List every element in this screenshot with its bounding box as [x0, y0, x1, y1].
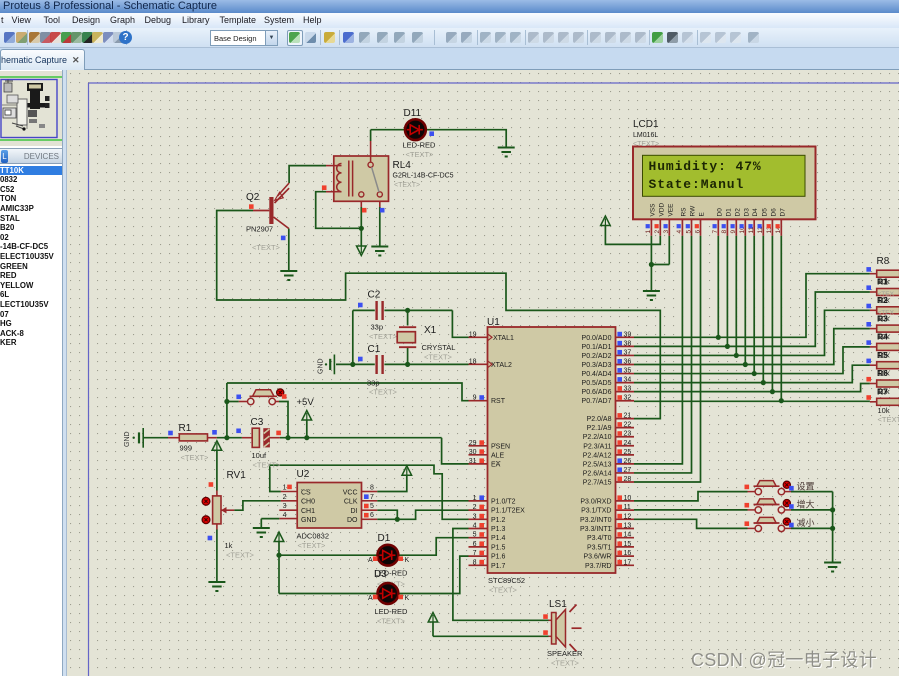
wire relay NO contact down to terminal [360, 197, 362, 246]
svg-text:RST: RST [491, 398, 506, 405]
svg-text:30: 30 [469, 449, 477, 456]
wire U1 P0.3 to R8 resistor 4 [634, 329, 870, 365]
node D1 junction [725, 344, 730, 349]
svg-text:33p: 33p [367, 379, 380, 388]
label D3 [368, 595, 410, 625]
wire U2 VCC to +5V arrow [362, 466, 412, 492]
svg-text:A: A [368, 557, 373, 564]
button 设置 actuator [783, 481, 790, 488]
svg-text:RV1: RV1 [227, 470, 247, 481]
svg-text:CH1: CH1 [301, 508, 315, 515]
svg-text:37: 37 [624, 349, 632, 356]
label R1 [179, 423, 210, 462]
svg-text:减小: 减小 [797, 517, 815, 528]
svg-text:R5: R5 [877, 350, 888, 360]
wire LCD D6 to P0.6 bus [771, 236, 773, 392]
svg-text:13: 13 [624, 523, 632, 530]
svg-text:PSEN: PSEN [491, 443, 510, 450]
wire LCD VSS to ground [651, 236, 669, 290]
label X1 [422, 325, 456, 362]
resistor pack R8 RESPACK-8 [870, 270, 899, 405]
svg-text:8: 8 [473, 559, 477, 566]
label D1 [368, 533, 410, 589]
svg-text:DO: DO [347, 517, 358, 524]
svg-text:VEE: VEE [667, 203, 674, 217]
svg-text:1k: 1k [225, 541, 233, 550]
svg-text:<TEXT>: <TEXT> [394, 182, 420, 189]
svg-text:29: 29 [469, 440, 477, 447]
svg-text:6: 6 [473, 541, 477, 548]
svg-text:8: 8 [370, 485, 374, 492]
label RL4 [393, 160, 454, 189]
svg-text:26: 26 [624, 458, 632, 465]
wire LCD VDD to +5V [601, 216, 661, 244]
svg-text:P1.1/T2EX: P1.1/T2EX [491, 508, 525, 515]
wire button rail to ground [832, 492, 834, 562]
left panel [0, 70, 62, 676]
svg-text:4: 4 [676, 230, 683, 234]
svg-text:P1.4: P1.4 [491, 535, 506, 542]
svg-text:7: 7 [473, 550, 477, 557]
wire GND terminal to C1 to XTAL2 [336, 363, 469, 365]
sheet border [89, 83, 899, 676]
svg-text:4: 4 [473, 523, 477, 530]
svg-text:LED-RED: LED-RED [403, 141, 437, 150]
svg-text:35: 35 [624, 368, 632, 375]
wire LCD D2 to P0.2 bus [735, 236, 737, 356]
terminal arrow to RV1 [212, 441, 222, 491]
reset button [248, 390, 278, 405]
wire LCD RS to U1 P2.5 [634, 236, 682, 464]
svg-text:P0.5/AD5: P0.5/AD5 [582, 380, 612, 387]
svg-text:2: 2 [654, 230, 661, 234]
svg-text:31: 31 [469, 458, 477, 465]
wire X1 links [407, 310, 409, 364]
svg-text:D4: D4 [752, 208, 759, 217]
svg-text:P3.1/TXD: P3.1/TXD [581, 508, 611, 515]
svg-text:P0.6/AD6: P0.6/AD6 [582, 389, 612, 396]
application title bar [0, 0, 899, 13]
svg-text:CH0: CH0 [301, 499, 315, 506]
svg-text:P2.1/A9: P2.1/A9 [587, 425, 612, 432]
U2 pin names [301, 489, 358, 524]
wire RST net [227, 383, 469, 401]
svg-text:CLK: CLK [344, 499, 358, 506]
svg-text:EA: EA [491, 461, 501, 468]
svg-text:27: 27 [624, 467, 632, 474]
svg-text:P0.1/AD1: P0.1/AD1 [582, 344, 612, 351]
node C2 right junction [405, 308, 410, 313]
wire D1 cathode to U1 P1.4 [397, 538, 469, 556]
svg-text:1: 1 [645, 230, 652, 234]
speaker LS1 [549, 605, 582, 652]
U1 left pin names [491, 335, 525, 570]
svg-text:9: 9 [730, 230, 737, 234]
label LS1 [547, 599, 583, 668]
svg-text:XTAL2: XTAL2 [491, 362, 512, 369]
svg-text:<TEXT>: <TEXT> [369, 332, 398, 341]
svg-text:<TEXT>: <TEXT> [489, 586, 518, 595]
LED D11 body [405, 119, 426, 140]
svg-text:3: 3 [283, 503, 287, 510]
svg-text:C2: C2 [368, 290, 381, 301]
svg-text:P3.5/T1: P3.5/T1 [587, 544, 612, 551]
label D11 [403, 108, 437, 159]
svg-text:D3: D3 [743, 208, 750, 217]
svg-text:P2.6/A14: P2.6/A14 [583, 470, 612, 477]
svg-text:STC89C52: STC89C52 [488, 576, 525, 585]
tab bar [0, 48, 899, 70]
label C1 [367, 344, 398, 397]
node rail b2 [830, 507, 835, 512]
svg-text:P2.4/A12: P2.4/A12 [583, 452, 612, 459]
svg-text:17: 17 [624, 559, 632, 566]
U1 right pin stubs [616, 337, 635, 565]
svg-text:4: 4 [283, 512, 287, 519]
svg-text:23: 23 [624, 431, 632, 438]
svg-text:36: 36 [624, 358, 632, 365]
wire D3 cathode to U1 P1.6 [397, 556, 469, 593]
svg-text:R8: R8 [877, 256, 890, 267]
svg-text:K: K [405, 595, 410, 602]
node rail R1 [224, 435, 229, 440]
node +5V arrow junction [304, 435, 309, 440]
label Q2 [246, 192, 281, 252]
wire LCD D5 to P0.5 bus [762, 236, 764, 383]
svg-text:D6: D6 [770, 208, 777, 217]
svg-text:5: 5 [685, 230, 692, 234]
svg-text:19: 19 [469, 331, 477, 338]
wire D11 anode from relay contact [371, 130, 407, 162]
svg-text:LCD1: LCD1 [633, 119, 659, 130]
svg-text:ADC0832: ADC0832 [297, 532, 330, 541]
svg-text:10k: 10k [878, 406, 890, 415]
label R8 [877, 256, 899, 424]
svg-text:3: 3 [473, 513, 477, 520]
svg-text:XTAL1: XTAL1 [493, 335, 514, 342]
svg-text:X1: X1 [424, 325, 437, 336]
node C1 left junction [350, 362, 355, 367]
svg-text:1: 1 [283, 485, 287, 492]
svg-text:VCC: VCC [343, 489, 358, 496]
LCD pin stubs and numbers [645, 219, 782, 235]
svg-text:P2.0/A8: P2.0/A8 [587, 416, 612, 423]
ground after D11 [498, 147, 515, 149]
svg-text:K: K [405, 557, 410, 564]
svg-text:A: A [368, 595, 373, 602]
wire U1 P3.2 to button DEC [634, 519, 748, 528]
svg-text:22: 22 [624, 422, 632, 429]
terminal arrow speaker [428, 613, 548, 637]
svg-text:GND: GND [318, 358, 325, 374]
svg-text:7: 7 [712, 230, 719, 234]
svg-text:999: 999 [180, 444, 193, 453]
U1 pin numbers [469, 331, 632, 566]
terminal arrow LED supply [274, 532, 284, 594]
overview window [0, 71, 62, 146]
svg-text:LM016L: LM016L [633, 132, 658, 139]
svg-text:<TEXT>: <TEXT> [377, 617, 406, 626]
svg-text:State:Manul: State:Manul [649, 177, 745, 192]
svg-text:25: 25 [624, 449, 632, 456]
transistor Q2 PN2907 [253, 188, 289, 228]
devices header [0, 148, 62, 164]
svg-text:P3.4/T0: P3.4/T0 [587, 535, 612, 542]
svg-text:D5: D5 [761, 208, 768, 217]
svg-text:5: 5 [473, 532, 477, 539]
wire LCD RW to U1 P2.6 [634, 236, 692, 473]
wire relay coil pin1 to Q2 emitter [278, 166, 334, 196]
svg-text:32: 32 [624, 395, 632, 402]
svg-text:P0.4/AD4: P0.4/AD4 [582, 371, 612, 378]
LCD pin names [649, 202, 786, 216]
svg-text:34: 34 [624, 377, 632, 384]
svg-text:10uf: 10uf [252, 451, 268, 460]
ground under Q2 [280, 270, 297, 272]
label U2 [297, 469, 330, 550]
svg-text:<TEXT>: <TEXT> [633, 141, 659, 148]
ground at relay contact [371, 246, 388, 248]
svg-text:16: 16 [624, 550, 632, 557]
svg-text:33: 33 [624, 386, 632, 393]
op-amp U1 STC89C52 body [488, 327, 616, 573]
wire relay NC contact to ground [379, 197, 381, 246]
svg-text:<TEXT>: <TEXT> [298, 541, 327, 550]
wire U2 GND pin to ground [261, 519, 297, 527]
svg-text:12: 12 [624, 513, 632, 520]
svg-text:P3.6/WR: P3.6/WR [583, 554, 611, 561]
wire to D3 anode [279, 593, 379, 595]
svg-text:LED-RED: LED-RED [375, 607, 409, 616]
wire U1 P0.7 to R8 resistor 8 [634, 400, 870, 402]
svg-text:LS1: LS1 [549, 599, 567, 610]
svg-text:U2: U2 [297, 469, 310, 480]
svg-text:R6: R6 [877, 368, 888, 378]
svg-text:38: 38 [624, 340, 632, 347]
button 减小 actuator [783, 518, 790, 525]
node X1 bottom junction [405, 362, 410, 367]
svg-text:2: 2 [283, 494, 287, 501]
ground under RV1 [208, 581, 225, 583]
label C3 [251, 417, 282, 470]
wire LCD D4 to P0.4 bus [753, 236, 755, 374]
wire U1 P3.0 to button SET [634, 492, 748, 501]
label U1 [487, 317, 525, 595]
push button 设置 [748, 481, 833, 495]
svg-text:18: 18 [469, 358, 477, 365]
svg-text:24: 24 [624, 440, 632, 447]
svg-text:<TEXT>: <TEXT> [181, 453, 210, 462]
svg-text:<TEXT>: <TEXT> [406, 150, 435, 159]
svg-text:39: 39 [624, 331, 632, 338]
svg-text:6: 6 [370, 512, 374, 519]
wire U2 CLK to U1 P1.0 [362, 500, 469, 502]
svg-text:7: 7 [370, 494, 374, 501]
wire reset button left leg [227, 383, 247, 438]
wire relay coil pin2 to contact node [316, 192, 362, 229]
svg-text:RS: RS [680, 207, 687, 217]
svg-text:<TEXT>: <TEXT> [424, 353, 453, 362]
node rail button right [285, 435, 290, 440]
svg-text:CS: CS [301, 489, 311, 496]
relay RL4 G2RL-14B-CF-DC5 [334, 156, 389, 201]
wire U1 P0.5 to R8 resistor 6 [634, 365, 870, 382]
svg-text:P2.2/A10: P2.2/A10 [583, 434, 612, 441]
wire U1 P0.1 to R8 resistor 2 [634, 292, 870, 346]
wire D11 cathode to ground [424, 130, 506, 147]
svg-text:D2: D2 [734, 208, 741, 217]
svg-text:D11: D11 [404, 108, 422, 119]
svg-text:<TEXT>: <TEXT> [253, 461, 282, 470]
potentiometer RV1 1k [213, 496, 227, 524]
svg-text:CRYSTAL: CRYSTAL [422, 343, 456, 352]
node D3 junction [743, 362, 748, 367]
U1 pin squares [479, 332, 622, 565]
capacitor C1 33p [377, 355, 383, 374]
wire crystal top net C2 to XTAL1 [353, 310, 469, 337]
svg-text:<TEXT>: <TEXT> [252, 243, 281, 252]
svg-text:<TEX: <TEX [878, 291, 895, 298]
svg-text:GND: GND [301, 517, 317, 524]
svg-text:P1.6: P1.6 [491, 554, 506, 561]
power +5V terminal [302, 411, 312, 438]
R8 pin squares [866, 267, 871, 400]
svg-text:VDD: VDD [658, 202, 665, 216]
crystal X1 [397, 327, 416, 347]
LCD LCD1 LM016L body [633, 147, 816, 220]
svg-text:10: 10 [624, 495, 632, 502]
svg-text:RW: RW [690, 205, 697, 217]
svg-text:C1: C1 [368, 344, 381, 355]
wire RV1 wiper to U2 CH0 [225, 501, 297, 510]
wire LCD D0 to P0.0 bus [717, 236, 719, 338]
svg-text:P3.7/RD: P3.7/RD [585, 563, 611, 570]
svg-text:8: 8 [721, 230, 728, 234]
devices list [0, 166, 62, 176]
svg-text:<TEXT>: <TEXT> [369, 388, 398, 397]
svg-text:G2RL-14B-CF-DC5: G2RL-14B-CF-DC5 [393, 173, 454, 180]
push button 增大 [748, 499, 833, 513]
svg-text:C3: C3 [251, 417, 264, 428]
wire U1 P0.2 to R8 resistor 3 [634, 310, 870, 355]
svg-text:R1: R1 [179, 423, 192, 434]
wire U1 P3.1 to button INC [634, 509, 748, 511]
wire U2 DI joins DO [362, 510, 398, 519]
wire reset button right leg [275, 402, 288, 438]
svg-text:D1: D1 [725, 208, 732, 217]
svg-text:P3.0/RXD: P3.0/RXD [580, 498, 611, 505]
terminal arrow down [357, 246, 367, 256]
svg-text:D0: D0 [716, 208, 723, 217]
label C2 [368, 290, 398, 342]
menu bar [0, 13, 899, 28]
U1 left pin stubs [469, 334, 493, 566]
label LCD1 [633, 119, 659, 148]
LED D1 body [378, 545, 399, 566]
svg-text:P3.2/INT0: P3.2/INT0 [580, 517, 612, 524]
capacitor C3 10uf [252, 428, 270, 447]
svg-text:11: 11 [624, 504, 631, 511]
wire LCD D1 to P0.1 bus [726, 236, 728, 347]
svg-text:P2.3/A11: P2.3/A11 [583, 443, 611, 450]
ground under LCD [643, 290, 660, 292]
svg-text:P1.3: P1.3 [491, 526, 506, 533]
svg-text:21: 21 [624, 413, 632, 420]
svg-text:<TEX: <TEX [878, 309, 895, 316]
toolbar [0, 28, 899, 48]
reset button actuator [277, 389, 284, 396]
svg-text:<TEXT>: <TEXT> [551, 659, 580, 668]
wire net Q2 base to U1 P2.0/A8 [217, 211, 661, 419]
svg-text:P1.5: P1.5 [491, 544, 506, 551]
svg-text:15: 15 [624, 541, 632, 548]
svg-text:14: 14 [624, 532, 632, 539]
svg-text:RL4: RL4 [393, 160, 412, 171]
U1 right pin names [580, 335, 612, 570]
svg-text:P0.3/AD3: P0.3/AD3 [582, 362, 612, 369]
svg-text:增大: 增大 [797, 499, 815, 510]
wire Q2 collector to ground [288, 229, 290, 271]
svg-text:P0.2/AD2: P0.2/AD2 [582, 353, 612, 360]
node DI DO junction [395, 517, 400, 522]
svg-text:1: 1 [473, 495, 477, 502]
svg-text:<TEXT: <TEXT [878, 415, 899, 424]
svg-text:D7: D7 [779, 208, 786, 217]
terminal GND at R1 [124, 428, 143, 448]
svg-text:E: E [699, 212, 706, 217]
svg-text:R7: R7 [877, 387, 888, 397]
svg-text:28: 28 [624, 476, 632, 483]
svg-text:R1: R1 [877, 277, 888, 287]
wire LCD D3 to P0.3 bus [744, 236, 746, 365]
svg-text:PN2907: PN2907 [246, 225, 273, 234]
capacitor C2 33p [377, 301, 383, 320]
wire U1 P0.6 to R8 resistor 7 [634, 384, 870, 392]
svg-text:P1.2: P1.2 [491, 517, 506, 524]
svg-text:2: 2 [473, 504, 477, 511]
svg-text:ALE: ALE [491, 452, 505, 459]
svg-text:U1: U1 [487, 317, 500, 328]
svg-text:Humidity: 47%: Humidity: 47% [649, 159, 762, 174]
wire U1 P0.4 to R8 resistor 5 [634, 347, 870, 374]
svg-text:5: 5 [370, 503, 374, 510]
button 增大 actuator [783, 500, 790, 507]
LED D3 body [378, 583, 399, 604]
svg-text:GND: GND [124, 431, 131, 447]
svg-text:D1: D1 [378, 533, 391, 544]
node D7 junction [779, 398, 784, 403]
svg-text:DI: DI [351, 508, 358, 515]
svg-text:P0.0/AD0: P0.0/AD0 [582, 335, 612, 342]
node D0 junction [716, 335, 721, 340]
svg-text:设置: 设置 [797, 481, 815, 491]
svg-text:R4: R4 [877, 332, 888, 342]
LCD display text [649, 159, 762, 192]
terminal GND at C1 [318, 355, 335, 375]
wire U2 CS to U1 P1.2 [270, 465, 469, 519]
wire U1 P0.0 to R8 resistor 1 [634, 274, 870, 338]
svg-text:P0.7/AD7: P0.7/AD7 [582, 398, 612, 405]
node D5 junction [761, 380, 766, 385]
push button 减小 [748, 517, 833, 531]
svg-text:+5V: +5V [297, 397, 315, 408]
svg-text:9: 9 [473, 395, 477, 402]
svg-text:P2.5/A13: P2.5/A13 [583, 461, 612, 468]
wire U1 P1.3 to speaker [453, 529, 549, 621]
svg-text:6: 6 [694, 230, 701, 234]
ground at U2 [253, 527, 270, 529]
wire +5V rail R1 to C3 to EA [144, 438, 469, 464]
